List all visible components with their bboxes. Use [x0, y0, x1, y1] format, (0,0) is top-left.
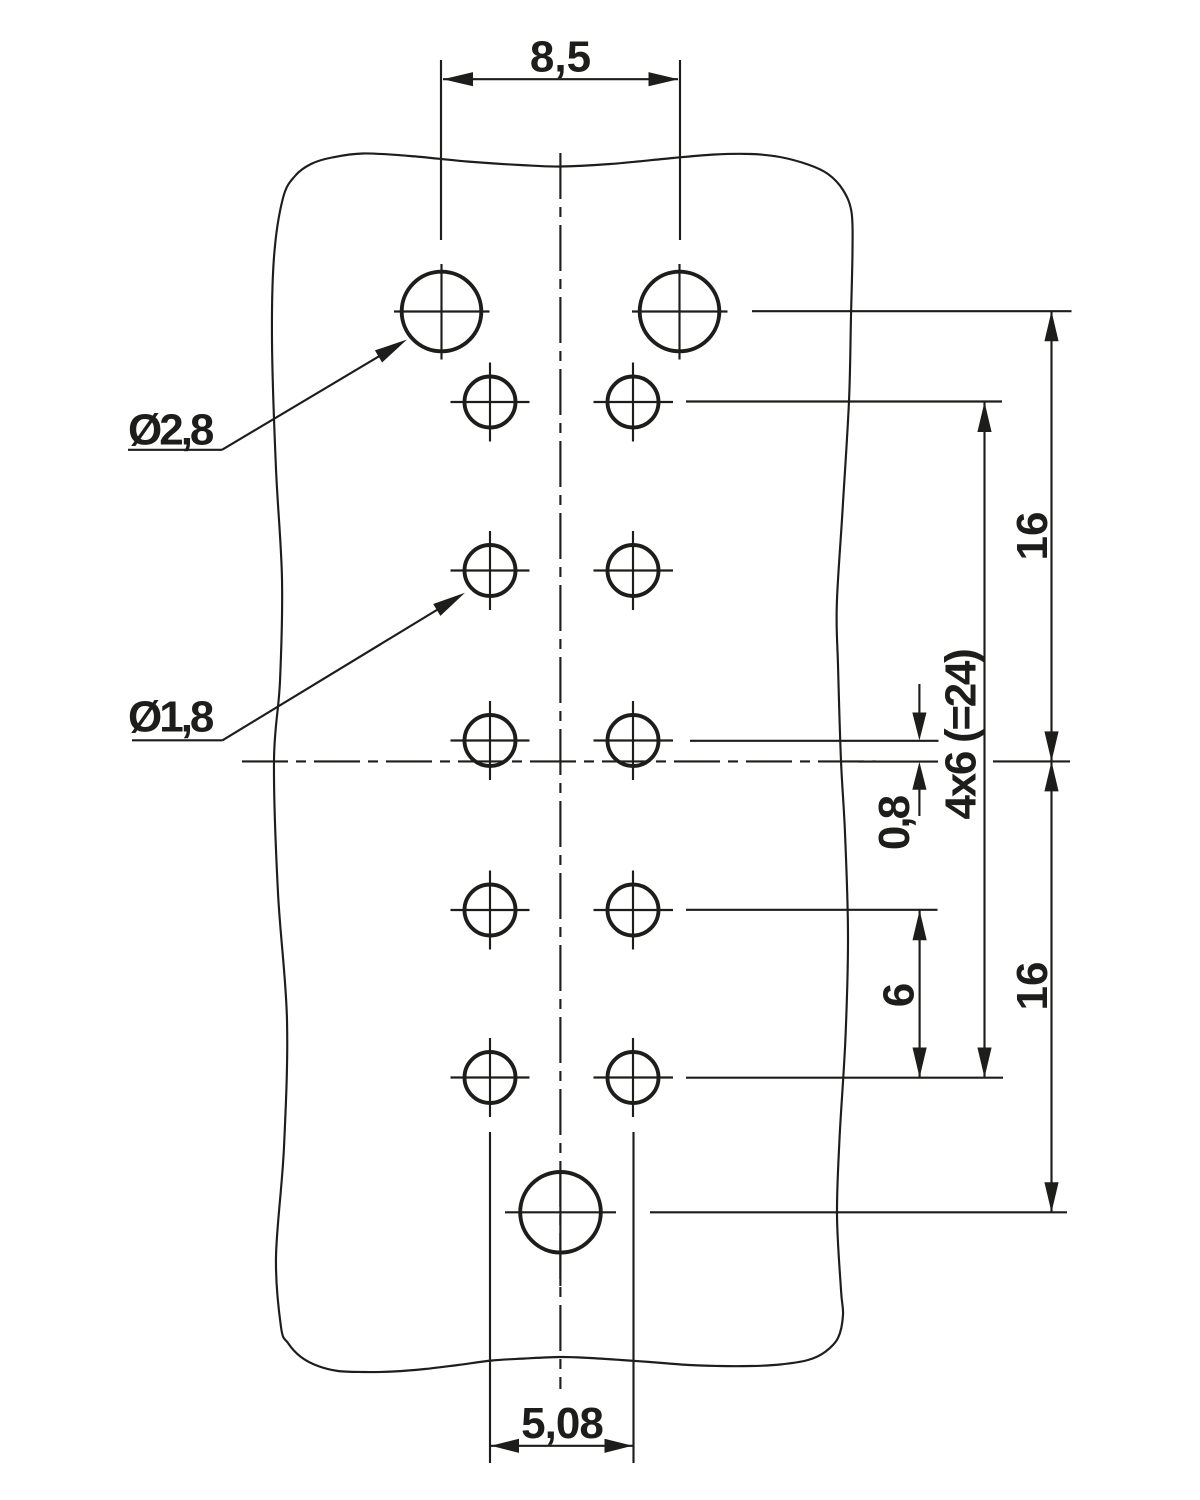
hole A2 large Ø2,8 top-right: [632, 264, 728, 360]
extension segment centerline (0,8): [858, 761, 938, 763]
vertical centerline: [559, 153, 561, 1389]
dimension line 5,08: [491, 1445, 633, 1447]
arrow 16 lower top: [1044, 761, 1058, 791]
arrow 6 top: [913, 910, 927, 940]
dimension line 6: [919, 910, 921, 1077]
svg-text:Ø2,8: Ø2,8: [128, 406, 214, 455]
hole B1 small row2 left: [451, 363, 530, 442]
hole G bottom large: [505, 1172, 616, 1253]
arrow 5,08 left: [491, 1439, 519, 1453]
dimension 0,8 upper arrow: [918, 684, 920, 714]
svg-text:16: 16: [1008, 962, 1057, 1011]
svg-text:4x6 (=24): 4x6 (=24): [937, 650, 986, 820]
hole E1 small row5 left: [451, 871, 530, 950]
svg-text:6: 6: [875, 983, 924, 1007]
extension line 5,08 right: [632, 1132, 634, 1463]
arrow 8,5 right: [649, 72, 679, 86]
leader Ø2,8: [128, 340, 407, 455]
extension line 8,5 right: [679, 60, 681, 240]
hole B2 small row2 right: [594, 363, 674, 442]
arrow 4x6 bottom: [977, 1048, 991, 1078]
extension line 8,5 left: [440, 60, 442, 240]
leader Ø1,8: [128, 593, 465, 742]
svg-text:Ø1,8: Ø1,8: [128, 693, 214, 742]
extension line row1 right (16 upper): [752, 310, 1072, 312]
vertical centerline solid segment through bottom hole: [559, 1174, 561, 1286]
hole C1 small row3 left: [451, 531, 530, 610]
svg-text:5,08: 5,08: [521, 1399, 603, 1448]
arrow 4x6 top: [977, 402, 991, 432]
hole D2 small row4 right: [594, 701, 674, 780]
dimension line 16 upper: [1050, 311, 1052, 761]
svg-text:0,8: 0,8: [870, 795, 919, 850]
hole F2 small row6 right: [594, 1038, 674, 1117]
plate outline (broken-out board edge): [272, 153, 853, 1372]
hole A1 large Ø2,8 top-left: [394, 264, 490, 360]
arrow 8,5 left: [443, 72, 473, 86]
hole F1 small row6 left: [451, 1038, 530, 1117]
dimension 0,8 lower arrow: [918, 788, 920, 816]
arrow 5,08 right: [605, 1439, 633, 1453]
horizontal centerline: [242, 760, 876, 762]
extension line row6 right (4x6 / 6): [686, 1077, 1003, 1079]
extension line row2 right (4x6): [686, 400, 1002, 402]
svg-text:8,5: 8,5: [530, 33, 591, 82]
arrow 16 lower bottom: [1044, 1182, 1058, 1212]
extension line 5,08 left: [489, 1132, 491, 1463]
hole E2 small row5 right: [594, 871, 674, 950]
extension line row4 right (0,8): [690, 740, 939, 742]
dimension line 8,5: [443, 78, 678, 80]
arrow 16 upper top: [1044, 311, 1058, 341]
arrow 6 bottom: [913, 1048, 927, 1078]
hole C2 small row3 right: [594, 531, 674, 610]
arrow 16 upper bottom: [1044, 731, 1058, 761]
svg-text:16: 16: [1008, 512, 1057, 561]
dimension line 4x6 (=24): [983, 402, 985, 1078]
extension line row5 right (6): [686, 909, 938, 911]
dimension line 16 lower: [1050, 761, 1052, 1212]
hole D1 small row4 left: [451, 701, 530, 780]
extension line bottom hole right (16 lower): [650, 1211, 1067, 1213]
extension line centerline right (16 shared): [993, 760, 1070, 762]
